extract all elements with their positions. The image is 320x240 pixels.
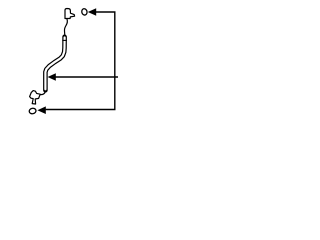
hose outer bbox=[45, 37, 64, 91]
arrow top bbox=[88, 8, 96, 16]
background bbox=[0, 0, 150, 125]
arrow bottom bbox=[37, 106, 45, 114]
nozzle fitting bbox=[30, 91, 41, 104]
hose end crossbar bbox=[62, 39, 67, 41]
grommet bottom bbox=[29, 108, 37, 115]
connector top bbox=[65, 9, 75, 19]
hose inner bbox=[45, 38, 64, 90]
middle leader bbox=[55, 76, 118, 78]
arrow middle bbox=[48, 73, 56, 81]
grommet top bbox=[81, 8, 88, 15]
link connector-to-hose bbox=[64, 19, 67, 36]
leader bracket bbox=[46, 12, 115, 110]
link hose-to-nozzle bbox=[40, 92, 45, 95]
